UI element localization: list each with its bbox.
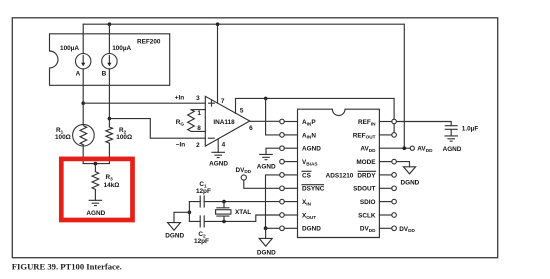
node: -In tap on R2 branch (108, 117, 112, 121)
svg-text:XTAL: XTAL (235, 209, 251, 216)
svg-text:DGND: DGND (165, 232, 184, 239)
supply terminal AVDD (410, 146, 433, 153)
pin MODE (356, 159, 396, 166)
wire: to DGND symbol (174, 212, 189, 222)
pin VBIAS (280, 159, 318, 166)
svg-text:AGND: AGND (86, 210, 105, 217)
svg-text:AGND: AGND (257, 163, 276, 170)
pin Xout (280, 212, 317, 219)
svg-text:SDIO: SDIO (360, 199, 376, 206)
svg-text:100Ω: 100Ω (116, 134, 132, 141)
wire: DSYNC stub (266, 187, 280, 189)
svg-text:8: 8 (197, 125, 201, 132)
svg-text:ADS1210: ADS1210 (326, 172, 354, 179)
wire: INA118 pin 7 to supply rail (217, 24, 219, 103)
wire: INA118 output pin 6 to AinP (250, 120, 280, 122)
svg-text:12pF: 12pF (194, 238, 209, 245)
pin CS (active low) (280, 171, 312, 179)
node: reference net branch to AinN (264, 97, 268, 101)
svg-text:A: A (76, 71, 81, 78)
svg-text:6: 6 (249, 125, 253, 132)
svg-text:AGND: AGND (443, 146, 462, 153)
node: +In tap on R1 branch (81, 101, 85, 105)
wire: R1-R2 bottom tie (83, 163, 109, 165)
pin DSYNC (active low) (280, 185, 325, 193)
wire: Xout row to oscillator (189, 215, 279, 221)
node: AVDD rail junction (403, 146, 407, 150)
pin AinN (280, 132, 317, 139)
node: junction of source B on top rail (108, 22, 112, 26)
pin AGND (280, 146, 322, 153)
svg-text:2: 2 (196, 142, 200, 149)
ground DGND (oscillator) (165, 223, 184, 240)
op-amp - input mark (208, 137, 214, 139)
svg-text:SCLK: SCLK (358, 212, 376, 219)
ground DGND (ADS1210 DGND pin) (257, 238, 276, 256)
svg-text:CS: CS (302, 172, 312, 179)
wire: INA118 pin 4 to ground (217, 139, 219, 152)
svg-text:DGND: DGND (400, 179, 419, 186)
svg-text:3: 3 (196, 95, 200, 102)
svg-text:1: 1 (197, 110, 201, 117)
ground AGND (bypass cap) (443, 136, 462, 153)
supply terminal DVDD (CS/DSYNC pullup) (236, 167, 252, 180)
svg-text:−In: −In (176, 142, 186, 149)
pin REFin (358, 119, 396, 126)
wire: branch down to AinN pin (266, 98, 280, 134)
pin SDOUT (353, 186, 396, 193)
svg-text:7: 7 (221, 98, 225, 105)
svg-text:14kΩ: 14kΩ (104, 182, 120, 189)
capacitor 1.0uF (445, 126, 478, 136)
svg-text:1.0µF: 1.0µF (462, 126, 479, 133)
wire: INA118 pin 5 reference net to REFOUT (236, 98, 395, 132)
svg-text:100µA: 100µA (60, 45, 79, 52)
wire: C1/C2 left leg (188, 202, 190, 222)
resistor R1 (PT100 probe, zigzag in circle) (73, 103, 95, 163)
svg-text:DGND: DGND (257, 250, 276, 257)
current source A (76, 24, 91, 103)
pin SDIO (360, 199, 397, 206)
pin REFout (353, 132, 397, 139)
svg-text:12pF: 12pF (196, 188, 211, 195)
op-amp + input mark (209, 100, 215, 106)
IC U2 ADS1210 outline (298, 109, 380, 237)
svg-text:4: 4 (222, 141, 226, 148)
ground DGND (MODE) (400, 167, 419, 187)
wire: DGND pin row (266, 227, 280, 229)
pin DVdd with supply terminal (360, 226, 416, 234)
svg-text:FIGURE 39. PT100 Interface.: FIGURE 39. PT100 Interface. (12, 262, 122, 272)
svg-text:+In: +In (175, 95, 185, 102)
node: XTAL top junction (222, 200, 226, 204)
wire: stub to DGND symbol (265, 228, 267, 238)
node: XTAL bottom junction (222, 220, 226, 224)
svg-text:B: B (102, 71, 107, 78)
capacitor C2 12pF (194, 216, 209, 245)
ground AGND (below R3) (86, 200, 105, 217)
svg-text:MODE: MODE (356, 159, 376, 166)
ground AGND (ADS1210) (257, 154, 276, 170)
svg-text:AGND: AGND (209, 160, 228, 167)
resistor R2 (106, 119, 113, 164)
wire: CS/DSYNC tie spine (266, 175, 280, 228)
wire: DVDD terminal to DSYNC row (244, 180, 266, 188)
figure border (12, 18, 497, 258)
wire: -In to INA118 pin 2 (109, 119, 205, 139)
pin AVdd (360, 146, 410, 153)
node: oscillator ground junction (188, 211, 192, 215)
svg-text:100Ω: 100Ω (55, 134, 71, 141)
resistor R3 (92, 164, 99, 201)
current source B (102, 24, 118, 118)
pin Xin (280, 199, 312, 206)
op-amp U1 INA118 body (205, 96, 249, 146)
pin DGND (280, 226, 322, 233)
wire: +In to INA118 pin 3 (83, 102, 205, 104)
svg-text:SDOUT: SDOUT (353, 186, 375, 193)
node: DGND junction (264, 226, 268, 230)
capacitor C1 12pF (196, 181, 211, 207)
svg-text:100µA: 100µA (112, 45, 131, 52)
svg-text:DRDY: DRDY (357, 172, 376, 179)
crystal XTAL (216, 202, 252, 222)
wire: Xin row to oscillator (189, 201, 279, 203)
pin DRDY (active low) (357, 171, 396, 179)
ground AGND (below INA118) (209, 152, 228, 167)
svg-text:INA118: INA118 (213, 119, 235, 126)
red highlight box around R3/AGND (61, 159, 132, 220)
node: R3 tap junction (94, 162, 98, 166)
wire: AGND pin to ground (266, 148, 280, 154)
svg-text:5: 5 (240, 108, 244, 115)
wire: MODE to DGND (396, 162, 409, 167)
node: junction of INA118 pin7 on top rail (216, 22, 220, 26)
pin AinP (stub+terminal) (280, 119, 317, 126)
REF200 package outline (50, 34, 170, 86)
pin SCLK (358, 212, 396, 219)
svg-text:DGND: DGND (302, 226, 321, 233)
svg-text:REF200: REF200 (137, 39, 161, 46)
wire: REFin to bypass capacitor (397, 122, 452, 126)
wire: top supply rail from source A to AVDD (83, 24, 404, 148)
svg-text:AGND: AGND (302, 146, 321, 153)
resistor RG (gain set, pins 1-8 bracket) (188, 110, 206, 132)
svg-text:DSYNC: DSYNC (302, 186, 325, 193)
